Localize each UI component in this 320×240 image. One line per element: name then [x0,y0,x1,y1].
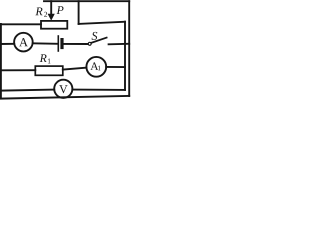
slider arrowhead [48,14,55,21]
wire rheostat row left [1,23,41,25]
label S [92,32,98,40]
switch pivot circle [88,42,91,45]
wire V1 drop at x=78.5 [78,1,80,24]
label V [59,85,67,93]
label R2 [35,8,42,16]
slider stem P [50,1,52,14]
wire top H1 from slider to top-right corner [44,0,129,2]
rheostat R2 box [41,21,67,29]
wire R1 row left [1,69,35,71]
wire A row left [1,43,14,45]
wire A1 right [106,66,125,68]
wire outer right vertical [128,1,130,96]
switch blade [91,38,106,43]
resistor R1 box [35,66,63,75]
label P [57,6,64,14]
wire R1 to A1 [63,68,87,70]
wire left vertical [0,24,2,99]
wire inner right vertical [124,22,126,90]
label A [19,38,28,46]
wire H2 step [79,22,125,24]
wire A to battery [33,42,58,45]
wire V right [72,89,125,91]
wire switch right [109,43,130,46]
wire bottom [1,96,129,99]
wire V row left [1,90,54,91]
wire battery to switch pivot [64,43,88,45]
battery short thick plate [60,40,63,48]
battery long plate [57,36,59,51]
ammeter A1 circle [86,57,106,77]
label R1 [40,54,47,62]
label A1 [90,62,98,70]
voltmeter V circle [54,80,72,98]
ammeter A circle [14,33,33,52]
